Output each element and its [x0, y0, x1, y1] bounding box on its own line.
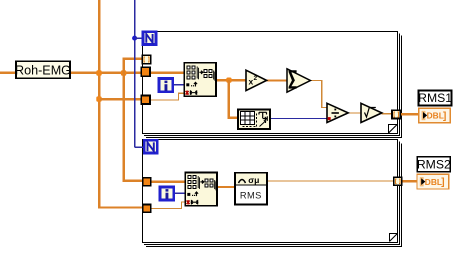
- wire: orange vertical branch x=98: [98, 0, 100, 208]
- tunnel: indexing input [] loop1: [142, 55, 150, 63]
- svg-text:Roh-EMG: Roh-EMG: [15, 64, 71, 78]
- node: x^2 triangle: [246, 70, 267, 90]
- coercion dot: [328, 117, 331, 120]
- node: RMS icon: [235, 173, 267, 205]
- Roh-EMG label: [15, 61, 71, 78]
- wire: matrix-size to divide (blue): [270, 118, 328, 119]
- iteration terminal i2: [160, 187, 174, 200]
- indicator label RMS2: [417, 157, 451, 172]
- wire: bottom elbow to loop2 lower tunnel: [98, 206, 144, 208]
- wire: tunnel1 to RMS1 indicator: [400, 113, 418, 116]
- junction dot (99,73): [96, 70, 101, 75]
- N terminal loop2: [144, 140, 157, 153]
- wire: i1 to subset index: [174, 84, 185, 85]
- svg-text:RMS1: RMS1: [418, 91, 452, 105]
- node: divide triangle: [327, 103, 348, 122]
- indicator terminal DBL 1: [419, 108, 451, 123]
- wire: i2 to subset2 index: [174, 193, 186, 194]
- wire: x2 to sigma: [267, 79, 288, 81]
- wire: tunnel2 to RMS2 indicator: [401, 180, 417, 183]
- node: sum (sigma) triangle: [287, 69, 310, 92]
- for-loop 2 border: [143, 140, 402, 247]
- wire: branch down to loop2 upper tunnel: [123, 73, 144, 182]
- tunnel: output [] loop2: [394, 177, 402, 185]
- tunnel: output [] loop1: [392, 110, 400, 118]
- tunnel: solid length input loop1: [141, 95, 150, 104]
- node: Array Subset 2: [185, 172, 217, 205]
- wire: branch to loop1 length tunnel: [100, 98, 141, 100]
- svg-text:RMS2: RMS2: [417, 158, 451, 172]
- junction dot (99,99): [96, 96, 101, 101]
- node: sqrt triangle: [361, 103, 382, 122]
- wire: loop2 length thin wire: [150, 201, 186, 209]
- wire: blue to N2: [135, 146, 144, 147]
- node: matrix size icon: [238, 110, 270, 130]
- wire: loop2 array tunnel to subset2: [150, 181, 186, 184]
- wire: sigma to divide: [310, 80, 328, 108]
- blue junction dot (134.6,38): [132, 36, 137, 41]
- svg-text:]: ]: [441, 177, 444, 188]
- junction dot (123.5,73): [121, 70, 126, 75]
- wire: subset2 output to RMS node: [217, 186, 236, 188]
- iteration terminal i1: [159, 78, 173, 91]
- tunnel: solid array input loop1: [141, 67, 150, 76]
- for-loop 2 corner fold: [389, 233, 397, 242]
- wire: blue N vertical: [134, 0, 136, 148]
- wire: branch up to indexing tunnel: [123, 58, 143, 74]
- tunnel: solid length input loop2: [143, 205, 151, 213]
- node: Array Subset 1: [184, 63, 216, 96]
- svg-text:DBL: DBL: [427, 111, 444, 121]
- indicator terminal DBL 2: [417, 174, 449, 189]
- wire: blue to N1: [135, 37, 143, 38]
- svg-text:DBL: DBL: [425, 177, 442, 187]
- svg-text:]: ]: [443, 111, 446, 122]
- indicator label RMS1: [418, 90, 452, 105]
- wire: sqrt to output tunnel 1: [382, 113, 393, 114]
- junction dot (228.9,80.1): [226, 78, 231, 83]
- svg-text:2: 2: [254, 75, 258, 82]
- svg-text:σμ: σμ: [248, 175, 259, 185]
- wire: loop1 subset length thin wire: [150, 93, 184, 101]
- wire: Roh-EMG array horizontal to loop1 tunnel: [0, 72, 184, 75]
- svg-text:RMS: RMS: [240, 190, 262, 200]
- wire: divide to sqrt: [348, 112, 362, 113]
- wire: branch down to matrix-size icon: [228, 80, 239, 119]
- N terminal loop1: [143, 32, 156, 45]
- wire: subset1 output to x2: [216, 79, 247, 81]
- wire: RMS node output to tunnel2: [267, 180, 394, 181]
- tunnel: solid array input loop2: [143, 178, 151, 186]
- for-loop 1 corner fold: [388, 124, 397, 133]
- for-loop 1 border: [143, 32, 402, 138]
